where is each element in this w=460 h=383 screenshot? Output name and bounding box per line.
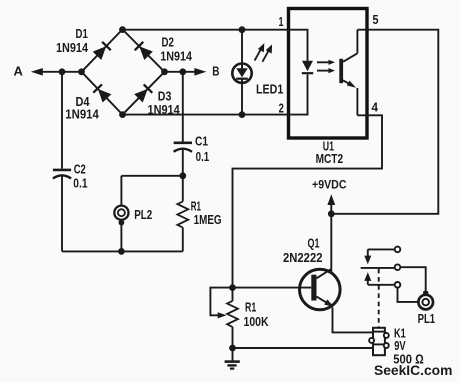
wire top rail to U1 pin1 [123,29,289,31]
wire B column above C1 [182,72,184,142]
wire Q1 base [233,287,312,289]
U1 coupling arrow 2 [317,68,335,73]
wire C2 branch upper [61,72,63,169]
svg-text:1N914: 1N914 [65,106,99,121]
ground [225,362,240,369]
node B arrow [165,68,207,76]
wire PL2 lower [120,224,122,251]
U1 internal LED [302,61,313,73]
node at C2 tap [59,68,66,75]
svg-text:0.1: 0.1 [73,175,87,190]
diode D2 [135,42,153,60]
wire bottom rail to U1 pin2 [123,114,289,116]
relay coil K1 [369,328,389,355]
LED1 [232,63,251,82]
wire bridge top-right edge [123,29,165,71]
wire R1 bottom to K1 bottom [233,347,374,349]
wire R1MEG top lead [182,176,184,202]
wire bridge bottom-left edge [82,72,123,115]
U1 internal LED wiring [289,30,308,115]
resistor R1 1MEG [177,202,188,228]
diode D4 [93,84,111,102]
node bridge left [78,68,85,75]
svg-text:D2: D2 [162,34,174,49]
potentiometer R1 100K [210,288,238,348]
svg-text:PL2: PL2 [134,207,152,222]
transistor Q1 [300,269,341,310]
relay contact top [364,247,400,265]
node bridge bottom [119,111,126,118]
wire bottom loop [62,250,183,252]
U1 phototransistor [339,30,357,116]
node +9VDC [328,210,335,217]
svg-text:100K: 100K [244,314,269,329]
node PL2 bottom [118,248,125,255]
LED1 emission arrow 1 [255,43,265,60]
diode D3 [134,84,152,102]
wire ground lead [232,348,234,361]
svg-text:1: 1 [279,14,284,29]
wire R1MEG bottom lead [182,228,184,252]
node LED1 top [239,26,246,33]
capacitor C1 [174,143,192,152]
svg-text:PL1: PL1 [418,311,436,326]
node ground junction [229,345,236,352]
svg-text:C2: C2 [74,162,86,177]
relay actuation dashed link [378,269,380,328]
U1 coupling arrow 1 [317,60,335,65]
plug PL1 [418,290,433,309]
relay armature [361,267,395,269]
capacitor C2 [53,170,71,179]
node B tap [179,68,186,75]
wire Q1 collector [330,214,332,272]
wire LED1 bottom lead [241,79,243,115]
node C1 R1 PL2 [179,172,186,179]
svg-text:5: 5 [373,12,379,27]
node bridge right [161,68,168,75]
diode D1 [93,42,111,60]
wire U1 pin5 to +9VDC rail [331,30,438,214]
svg-text:2: 2 [279,100,284,115]
wire bottom contact to PL1 [398,288,418,302]
+9VDC arrow [327,194,335,214]
svg-text:0.1: 0.1 [196,149,210,164]
node LED1 bottom [239,111,246,118]
lamp PL2 [114,206,128,226]
svg-text:Q1: Q1 [308,236,320,251]
wire PL2 upper [120,176,122,206]
node bridge top [119,26,126,33]
wire middle contact to PL1 [400,267,425,290]
svg-text:A: A [14,63,24,78]
svg-text:4: 4 [372,100,379,115]
LED1 emission arrow 2 [262,44,272,61]
wire Q1 emitter to K1 [333,308,374,333]
wire PL2 horizontal [121,175,182,177]
relay contact middle [395,264,401,270]
svg-text:SeekIC.com: SeekIC.com [374,362,452,378]
svg-text:1N914: 1N914 [56,40,89,55]
svg-text:MCT2: MCT2 [316,151,344,166]
wire bridge right-bottom edge [123,72,165,115]
svg-text:R1: R1 [245,300,256,315]
svg-text:LED1: LED1 [256,82,283,97]
relay contact bottom [364,272,400,287]
node A arrow [31,68,82,76]
svg-text:+9VDC: +9VDC [312,177,347,191]
svg-text:D1: D1 [76,26,88,41]
svg-text:2N2222: 2N2222 [283,250,323,265]
svg-text:C1: C1 [195,134,208,149]
wire B column below C1 [182,149,184,176]
svg-text:1N914: 1N914 [148,102,181,117]
optocoupler U1 body [289,9,368,139]
svg-text:B: B [212,64,219,79]
wire bridge left-top edge [82,29,123,71]
wire U1 pin4 to Q1 base node [233,115,383,287]
svg-text:1MEG: 1MEG [194,212,222,227]
wire C2 branch lower [61,176,63,252]
svg-text:1N914: 1N914 [160,48,192,63]
node Q1 base [229,284,236,291]
wire LED1 top lead [241,30,243,68]
